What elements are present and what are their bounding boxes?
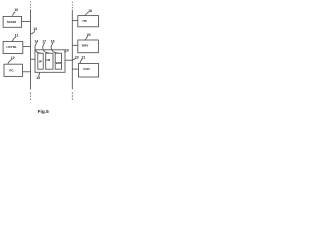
svg-text:18: 18 <box>88 9 92 13</box>
right bus dash-dot bottom <box>71 92 73 100</box>
svg-text:Fig.5: Fig.5 <box>38 109 50 114</box>
leader 12 <box>8 59 12 64</box>
wire PC to bus <box>23 71 31 73</box>
leader 14 <box>35 43 41 54</box>
leader 18 <box>85 12 88 15</box>
leader 11 <box>12 37 16 42</box>
svg-text:14: 14 <box>34 40 38 44</box>
svg-text:IP: IP <box>39 59 42 63</box>
left bus dash-dot bottom <box>30 92 32 100</box>
svg-text:20: 20 <box>87 33 91 37</box>
box UCTRL <box>3 42 23 54</box>
box DRV <box>78 40 99 53</box>
box ITF <box>78 16 99 27</box>
box PC <box>4 64 23 76</box>
svg-text:UCTRL: UCTRL <box>6 45 17 49</box>
svg-text:SCHM: SCHM <box>7 20 17 24</box>
wire bus to ITF <box>72 20 78 22</box>
leader 20 <box>85 36 88 40</box>
inner box CM <box>46 53 53 69</box>
leader 23 <box>72 58 76 60</box>
svg-text:23: 23 <box>75 55 79 59</box>
wire bus to DRV <box>72 44 78 46</box>
inner box WM <box>55 53 61 69</box>
svg-text:DRV: DRV <box>82 43 89 47</box>
box VCR <box>79 64 99 78</box>
left bus dash-dot top <box>30 2 32 8</box>
arrow 19 <box>64 51 66 52</box>
svg-text:13: 13 <box>33 27 37 31</box>
leader 13 <box>31 30 35 34</box>
right bus solid <box>71 10 73 90</box>
svg-text:16: 16 <box>51 40 55 44</box>
svg-text:ITF: ITF <box>82 19 87 23</box>
right bus dash-dot top <box>71 2 73 8</box>
svg-text:19: 19 <box>65 49 69 53</box>
leader 17 <box>43 43 49 53</box>
wire bus to VCR <box>72 68 78 70</box>
svg-text:WM: WM <box>56 61 62 65</box>
container box <box>35 50 65 73</box>
svg-text:15: 15 <box>36 76 40 80</box>
svg-text:21: 21 <box>82 55 86 59</box>
svg-text:VCR: VCR <box>83 67 90 71</box>
box SCHM <box>3 16 22 27</box>
left bus solid <box>30 9 32 89</box>
wire SCHM to bus <box>22 20 31 22</box>
svg-text:11: 11 <box>15 34 19 38</box>
wire container to right bus <box>65 59 72 61</box>
wire UCTRL to bus <box>23 46 31 48</box>
svg-text:PC: PC <box>9 68 14 72</box>
svg-text:17: 17 <box>42 40 46 44</box>
wire bus to container <box>31 58 36 60</box>
leader 10 <box>13 12 16 16</box>
inner box IP <box>38 53 43 69</box>
leader 21 <box>80 59 83 64</box>
leader 15 <box>39 73 40 77</box>
svg-text:CM: CM <box>45 58 50 62</box>
leader 16 <box>51 43 58 53</box>
svg-text:12: 12 <box>11 56 15 60</box>
svg-text:10: 10 <box>14 8 18 12</box>
